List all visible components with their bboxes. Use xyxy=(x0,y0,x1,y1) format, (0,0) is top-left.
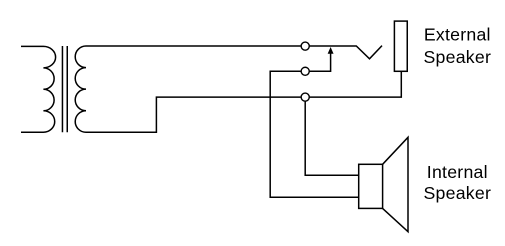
svg-text:Speaker: Speaker xyxy=(423,183,491,203)
svg-text:Speaker: Speaker xyxy=(423,47,491,67)
svg-text:Internal: Internal xyxy=(427,162,488,182)
svg-text:External: External xyxy=(424,25,491,45)
